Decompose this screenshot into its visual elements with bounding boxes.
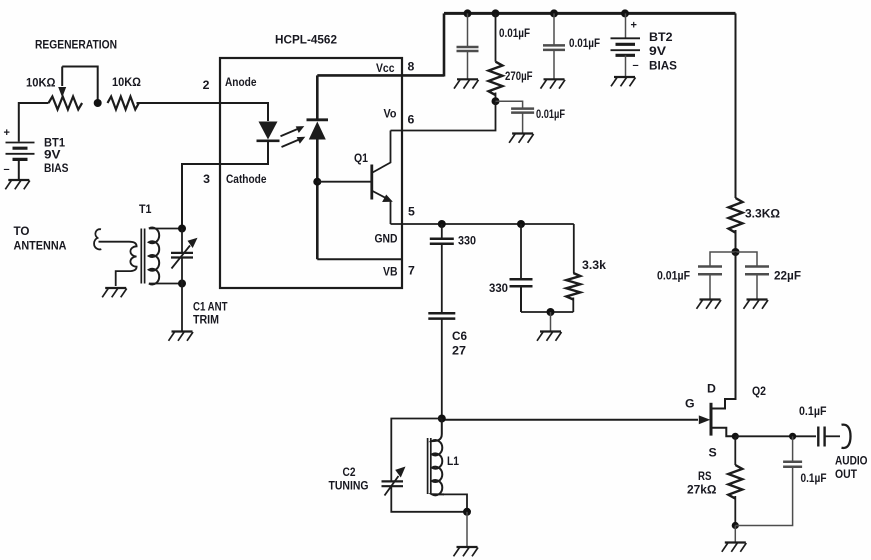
capacitor C7 0.01uF [710,252,736,266]
resistor R2 10K ohm [108,97,139,110]
LED D1 (emitter diode) [259,122,278,140]
resistor R5 3.3k [573,224,575,273]
svg-text:0.1µF: 0.1µF [801,471,827,485]
wire photodiode to base node [316,140,319,260]
node output cap junction [789,433,796,440]
wire gate node left to C2 [391,419,442,481]
svg-text:0.01µF: 0.01µF [657,269,690,283]
svg-text:C2: C2 [343,465,356,479]
svg-text:3.3KΩ: 3.3KΩ [745,207,780,221]
svg-text:Vcc: Vcc [376,61,395,75]
svg-text:TO: TO [14,224,30,238]
node gate junction [438,415,446,423]
svg-text:0.01µF: 0.01µF [569,36,600,50]
wire L1 bottom [443,494,467,511]
svg-text:RS: RS [698,469,712,483]
capacitor C4 0.01uF on Vo [496,101,523,108]
variable capacitor C1 ant trim [181,229,183,253]
wire C12/R5 bottom to ground [521,311,573,313]
T1 core lines [141,229,144,284]
svg-text:D: D [707,382,716,396]
Q1 emitter with arrow [373,191,386,198]
node ground junction [732,522,739,529]
wire R2 to pin2 anode [137,102,269,104]
svg-text:Vo: Vo [384,107,397,121]
ground T1 primary [102,288,127,297]
wire pot left to battery [19,103,49,142]
potentiometer wiper arrow [61,67,63,87]
svg-text:ANTENNA: ANTENNA [14,239,67,253]
svg-text:0.01µF: 0.01µF [499,26,530,40]
ground tank [454,547,479,556]
capacitor C3 0.01uF [467,13,469,46]
svg-text:5: 5 [408,205,415,219]
svg-text:G: G [685,397,695,411]
ground C8 [744,300,769,309]
node pin5/C12 [517,220,525,228]
capacitor C10 0.1uF shunt [792,436,794,461]
svg-text:0.01µF: 0.01µF [536,107,565,121]
svg-text:L1: L1 [447,454,459,468]
svg-text:–: – [4,164,10,176]
potentiometer R1 10K ohm [49,97,83,110]
svg-text:HCPL-4562: HCPL-4562 [275,33,337,47]
resistor R3 270uF label [495,13,497,61]
resistor R4 3.3K ohm [729,198,743,233]
capacitor C9 0.1uF series [818,427,824,447]
wire BT1 to ground [18,159,20,180]
capacitor C8 22uF [736,252,758,266]
svg-text:+: + [4,127,10,139]
svg-text:–: – [633,60,639,72]
svg-text:6: 6 [408,113,415,127]
svg-text:270µF: 270µF [505,69,533,83]
audio out hook terminal [842,425,851,448]
wire C2 bottom [391,486,467,512]
battery BT1 [6,143,35,160]
battery BT2 [625,13,627,38]
wire LED cathode to pin 3 [182,141,268,226]
inductor L1 [432,419,444,496]
svg-text:22µF: 22µF [774,269,801,283]
ground C1 [169,332,194,341]
op-amp/optocoupler U1 HCPL-4562 body [220,58,402,288]
ground RS [722,543,747,552]
wire top supply rail [444,12,736,15]
svg-text:BIAS: BIAS [44,161,69,175]
wire pin 8 riser [443,13,446,76]
svg-text:+: + [631,20,637,32]
svg-text:330: 330 [489,281,508,295]
wire pin 5 net [391,223,574,225]
ground BT2 [611,77,636,86]
wire C1 bottom to ground [181,284,183,332]
capacitor C6 27 [428,313,455,318]
T1 primary winding [99,242,137,286]
ground R5 [537,332,562,341]
L1 core lines [428,438,431,494]
svg-text:9V: 9V [649,44,667,58]
capacitor C12 330 [520,224,522,279]
svg-text:TRIM: TRIM [193,313,219,327]
svg-text:BIAS: BIAS [649,59,677,73]
wire anode into LED [220,103,268,121]
svg-text:27: 27 [452,344,466,358]
wire junction to pin 6 [391,101,496,130]
node pin5/C11 [438,220,446,228]
node secondary top [178,225,186,233]
svg-text:Anode: Anode [225,75,257,89]
svg-text:9V: 9V [44,148,61,162]
svg-text:2: 2 [203,78,210,92]
svg-text:330: 330 [458,234,476,248]
node Vo junction [492,97,500,105]
Q1 collector [373,131,391,173]
node rail/R3 [492,9,500,17]
svg-text:S: S [709,446,717,460]
ground C5 [541,79,566,88]
svg-text:C6: C6 [452,329,467,343]
resistor RS 27k ohm [734,436,736,465]
svg-text:7: 7 [408,264,415,278]
svg-text:Q2: Q2 [752,384,766,398]
svg-text:10KΩ: 10KΩ [26,76,56,90]
wire C6 to gate node [441,319,443,419]
svg-text:C1 ANT: C1 ANT [193,300,228,314]
wire source to output [735,435,816,437]
node base junction [313,178,321,186]
light arrow 1 [281,129,298,136]
node tank ground junction [463,508,471,516]
photodiode D2 [316,75,319,119]
antenna lead squiggle [94,229,101,249]
svg-text:Q1: Q1 [354,151,368,165]
wire C11 to C6 [441,244,443,313]
wire internal GND rail [317,258,402,260]
svg-text:TUNING: TUNING [329,479,369,493]
node secondary bottom [178,280,186,288]
svg-text:GND: GND [375,232,398,246]
node rail/BT2 [621,9,629,17]
svg-text:AUDIO: AUDIO [835,454,868,468]
svg-text:OUT: OUT [835,467,857,481]
svg-text:3: 3 [203,172,210,186]
wire secondary top lead [149,228,182,230]
svg-text:VB: VB [383,265,398,279]
wire secondary bottom lead [149,283,182,285]
capacitor C5 0.01uF [553,13,555,45]
light arrow 2 [282,140,299,147]
T1 secondary winding [149,228,159,285]
ground C4 [509,134,534,143]
svg-text:Cathode: Cathode [226,172,267,186]
svg-text:T1: T1 [139,202,152,216]
node rail/C5 [550,9,558,17]
svg-text:8: 8 [408,60,415,74]
wire wiper loop to junction [62,67,97,101]
svg-text:3.3k: 3.3k [582,258,606,272]
svg-text:0.1µF: 0.1µF [799,404,827,418]
variable capacitor C2 tuning [382,481,404,486]
wire to Q2 drain [712,252,736,409]
node R4 bottom / caps [732,248,740,256]
wire internal Vcc rail / pin 8 lead [317,74,444,77]
svg-text:10KΩ: 10KΩ [112,75,141,89]
wire rail to R4 [735,13,737,198]
svg-text:BT2: BT2 [649,30,673,44]
svg-text:27kΩ: 27kΩ [687,483,717,497]
ground C7 [697,300,722,309]
capacitor C11 330 [441,224,443,238]
ground BT1 [5,180,30,189]
node junction pot/R2 [94,99,102,107]
svg-text:REGENERATION: REGENERATION [35,38,117,52]
ground C3 [454,79,479,88]
node rail/C3 [464,9,472,17]
wire Q2 source lead [712,428,735,437]
node source junction [732,433,739,440]
wire gate lead with arrow [442,419,698,421]
